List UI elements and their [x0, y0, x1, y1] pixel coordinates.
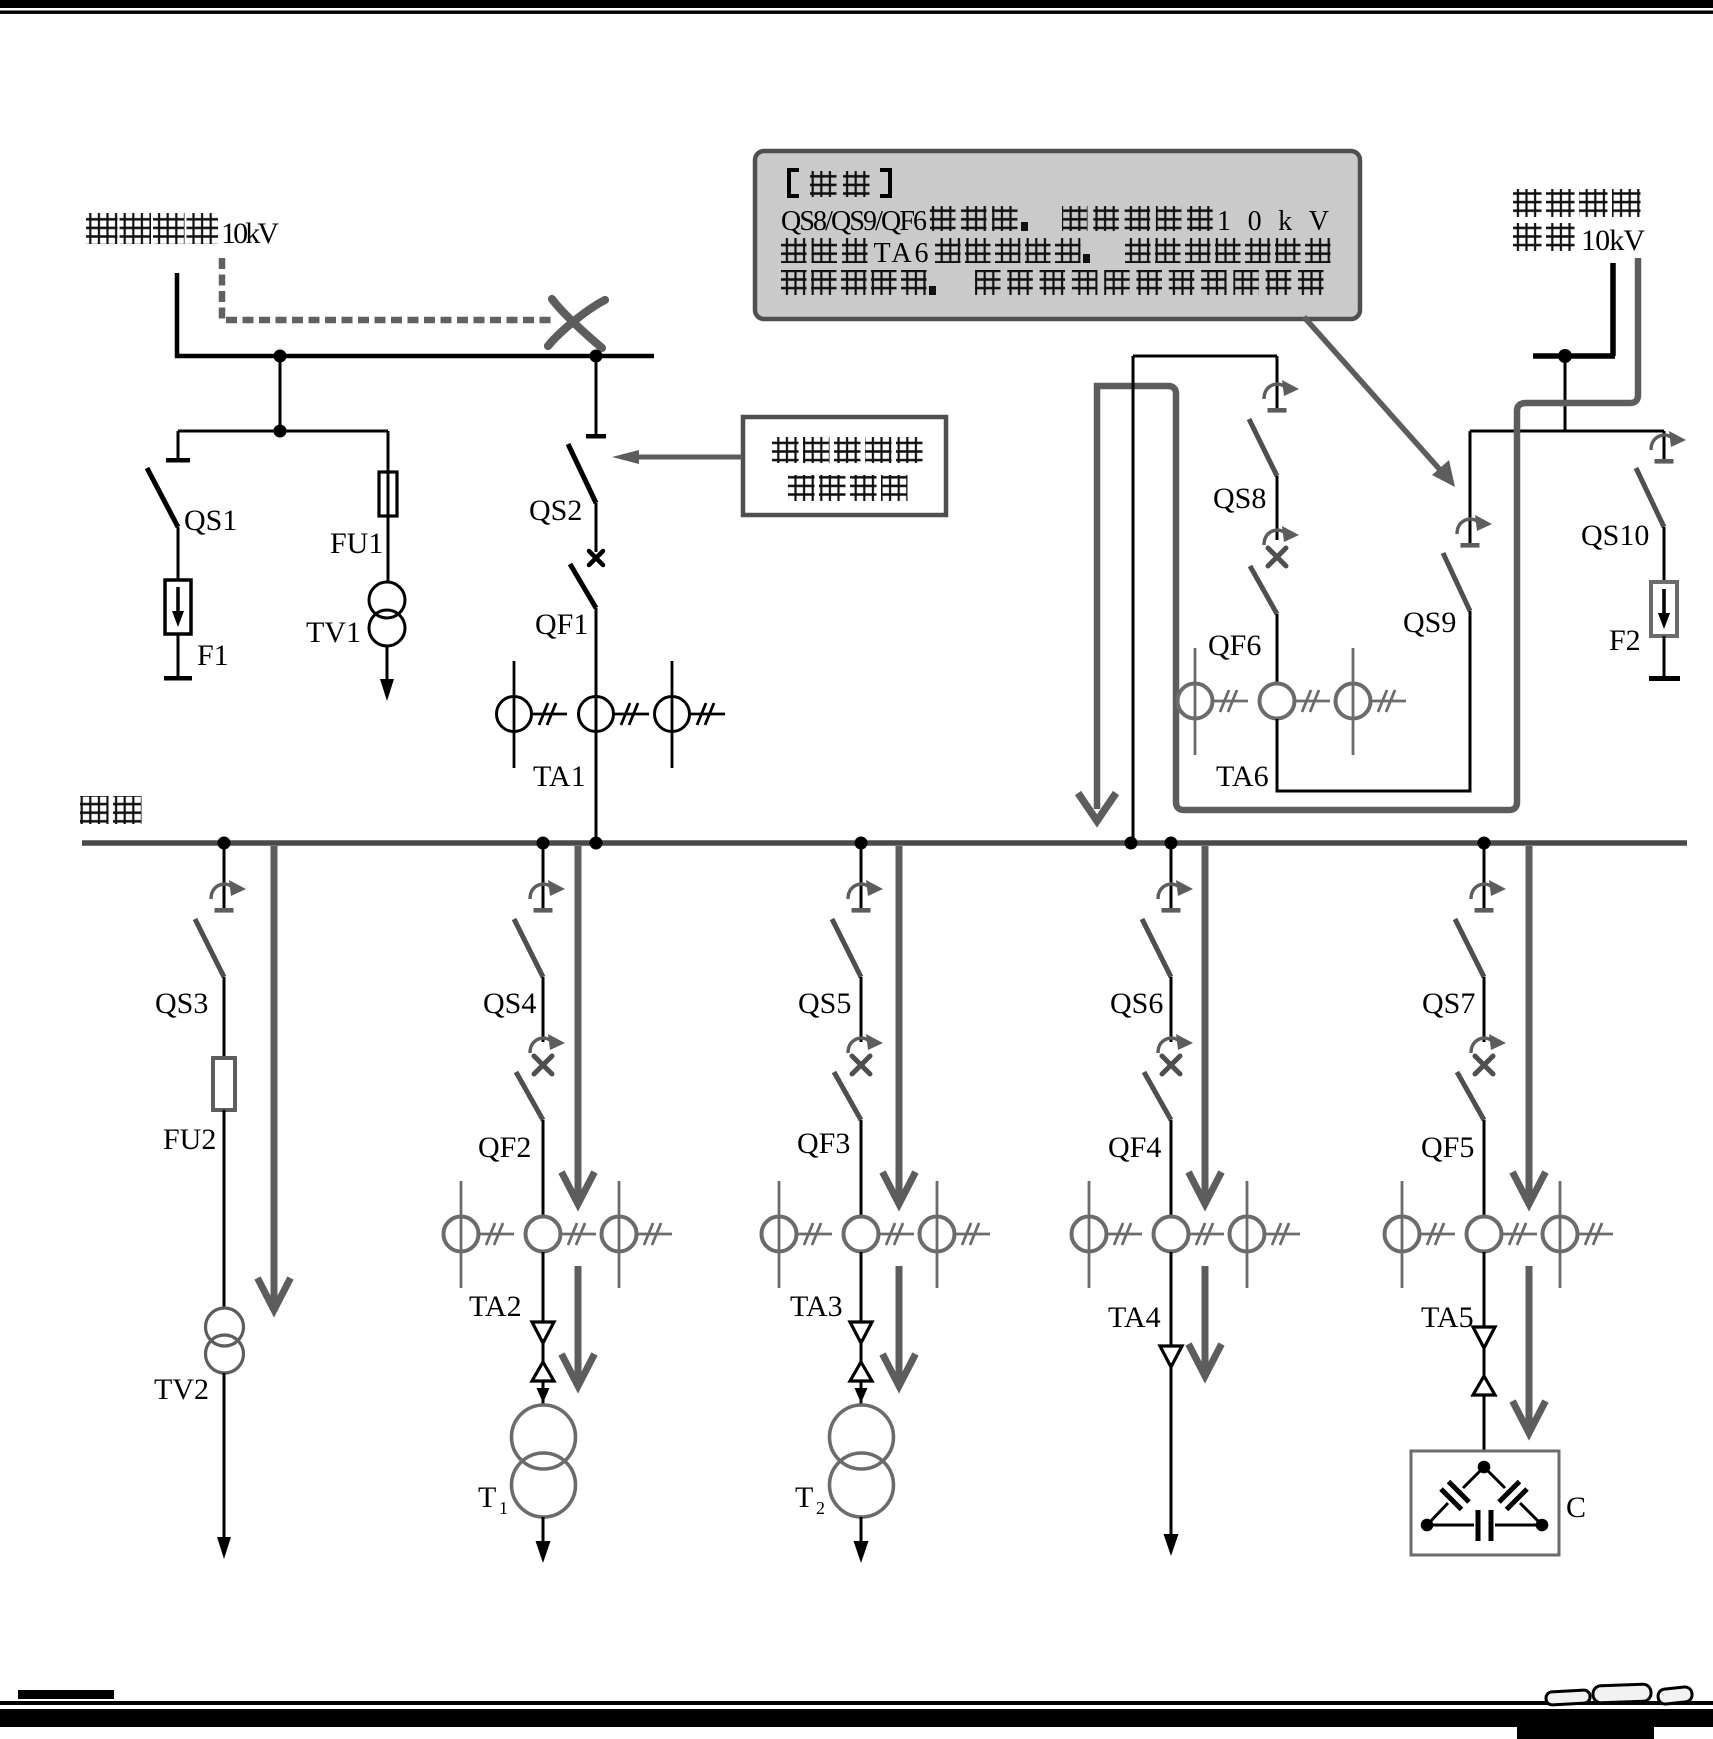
svg-text:2: 2 [816, 1498, 825, 1518]
wire [1170, 843, 1173, 909]
wire [595, 608, 598, 843]
svg-text:FU2: FU2 [163, 1123, 216, 1156]
wire [542, 843, 545, 909]
bottom-right small doodle [1546, 1684, 1693, 1705]
svg-text:QF5: QF5 [1421, 1131, 1474, 1164]
capacitor bank delta [1478, 1461, 1491, 1474]
svg-text:QS9: QS9 [1403, 606, 1456, 639]
svg-text:10kV: 10kV [221, 217, 279, 250]
flow arrows branch4 [1202, 846, 1209, 1198]
svg-text:QS3: QS3 [155, 987, 208, 1020]
disconnector QS5 [848, 884, 868, 899]
breaker QF5 [1471, 1038, 1491, 1053]
capacitor bank C box [1411, 1451, 1559, 1555]
current transformer TA3 [778, 1181, 781, 1288]
wire: left riser [175, 273, 180, 358]
svg-text:TA6: TA6 [874, 238, 929, 269]
svg-text:QS6: QS6 [1110, 987, 1163, 1020]
disconnector QS6 [1158, 884, 1178, 899]
svg-text:TA6: TA6 [1216, 760, 1269, 793]
svg-text:F1: F1 [197, 639, 229, 672]
callout box: fault note [743, 417, 946, 515]
wire + arrow [860, 1517, 863, 1546]
svg-text:TA2: TA2 [469, 1290, 522, 1323]
svg-text:QF6: QF6 [1208, 629, 1261, 662]
wire [1483, 977, 1486, 1042]
current transformer TA1 [513, 661, 516, 768]
disconnector QS4 [530, 884, 550, 899]
node: feeder junction B (QS2 tap) [590, 350, 603, 363]
disconnector QS2 [595, 356, 598, 435]
wire: QS8 header drop to bus [1132, 356, 1135, 843]
wire [1483, 1120, 1486, 1217]
note box (shuoming) [755, 151, 1360, 319]
node: bus tap x=1484 [1478, 837, 1491, 850]
disconnector QS7 [1471, 884, 1491, 899]
wire + arrow [386, 646, 389, 681]
label: busbar [80, 796, 109, 824]
flow arrowhead onto busbar [1078, 793, 1116, 821]
wire [177, 634, 180, 677]
isolating contacts [542, 1252, 545, 1322]
wire: QS1/FU1 header [178, 430, 388, 433]
wire [1663, 636, 1666, 677]
fuse FU1 [387, 431, 390, 472]
wire [860, 843, 863, 909]
wire [860, 977, 863, 1042]
disconnector QS8 [1276, 356, 1279, 409]
current transformer TA5 [1401, 1181, 1404, 1288]
svg-text:QF1: QF1 [535, 608, 588, 641]
wire [223, 977, 226, 1042]
disconnector QS10 [1663, 431, 1666, 460]
flow arrow branch1 [271, 846, 278, 1304]
wire: TA6 bottom U-link [1277, 611, 1470, 791]
svg-text:TA5: TA5 [1421, 1301, 1474, 1334]
node: backup tap [1558, 349, 1572, 363]
node: bus tap x=861 [855, 837, 868, 850]
disconnector QS9 [1469, 431, 1472, 544]
thick gray power-flow loop [1097, 258, 1638, 810]
wire: backup inlet (black thick) [1610, 263, 1616, 356]
surge arrester F1 [165, 580, 191, 634]
svg-text:QS8: QS8 [1213, 482, 1266, 515]
flow arrows branch5 [1526, 846, 1533, 1198]
earth bar F2 [1649, 676, 1680, 681]
node: bus tap x=543 [537, 837, 550, 850]
bottom border bars [18, 1690, 114, 1699]
wire [177, 527, 180, 580]
wire + arrow [1170, 1367, 1173, 1538]
flow arrows branch3 [896, 846, 903, 1198]
label: backup source inlet 10kV [1513, 189, 1542, 217]
breaker QF1 [589, 551, 603, 565]
node: bus tap x=1131 [1125, 837, 1138, 850]
wire: QS8 header [1133, 355, 1277, 358]
dashed fault wire [222, 258, 556, 320]
wire + arrow [223, 1373, 226, 1545]
svg-text:TV1: TV1 [306, 616, 361, 649]
svg-text:TA4: TA4 [1108, 1301, 1161, 1334]
svg-text:QS4: QS4 [483, 987, 536, 1020]
wire [542, 1120, 545, 1217]
svg-text:QS1: QS1 [184, 504, 237, 537]
svg-text:QF3: QF3 [797, 1127, 850, 1160]
svg-text:F2: F2 [1609, 624, 1641, 657]
svg-text:QF2: QF2 [478, 1131, 531, 1164]
breaker QF3 [848, 1038, 868, 1053]
node: feeder junction A [274, 350, 287, 363]
wire [387, 516, 390, 582]
svg-text:TA3: TA3 [790, 1290, 843, 1323]
node: header junction [274, 425, 287, 438]
wire + arrow [542, 1517, 545, 1546]
svg-text:T: T [795, 1481, 813, 1514]
svg-text:TV2: TV2 [154, 1373, 209, 1406]
voltage transformer TV1 [369, 582, 405, 618]
earth bar F1 [164, 676, 192, 681]
svg-text:QS10: QS10 [1581, 519, 1649, 552]
flow arrows branch2 [575, 846, 582, 1198]
fuse FU2 [223, 1042, 226, 1058]
isolating contacts [1483, 1252, 1486, 1327]
svg-text:QS8/QS9/QF6: QS8/QS9/QF6 [781, 206, 927, 237]
wire [860, 1120, 863, 1217]
arrow: note box to QS9 [1304, 317, 1442, 472]
svg-text:QS5: QS5 [798, 987, 851, 1020]
arrow: fault note to QS2 [634, 455, 742, 460]
current transformer TA4 [1088, 1181, 1091, 1288]
X cut mark [548, 300, 605, 346]
svg-text:QF4: QF4 [1108, 1131, 1161, 1164]
svg-text:T: T [478, 1481, 496, 1514]
wire: drop to QS1/FU1 junction [279, 356, 282, 431]
svg-text:QS2: QS2 [529, 494, 582, 527]
svg-text:TA1: TA1 [533, 760, 586, 793]
label: main source inlet 10kV [86, 213, 118, 244]
wire [1276, 476, 1279, 540]
svg-text:1: 1 [499, 1498, 508, 1518]
wire [1663, 527, 1666, 582]
wire [1564, 356, 1567, 431]
wire [1276, 614, 1279, 684]
svg-text:C: C [1566, 1491, 1586, 1524]
wire: top feeder bus [175, 354, 654, 359]
transformer T1 [512, 1405, 576, 1469]
voltage transformer TV2 [206, 1308, 244, 1346]
busbar [82, 840, 1687, 846]
breaker QF4 [1158, 1038, 1178, 1053]
wire: QS9/QS10 header [1470, 430, 1664, 433]
isolating contact [1170, 1252, 1173, 1346]
wire [1170, 1120, 1173, 1217]
wire [223, 1110, 226, 1308]
disconnector QS1 [177, 431, 180, 458]
node: bus tap x=1171 [1165, 837, 1178, 850]
wire [542, 977, 545, 1042]
current transformer TA6 [1194, 648, 1197, 755]
wire [223, 843, 226, 909]
svg-text:QS7: QS7 [1422, 987, 1475, 1020]
wire [595, 503, 598, 552]
node: bus tap x=596 [590, 837, 603, 850]
disconnector QS3 [211, 884, 231, 899]
wire [1483, 843, 1486, 909]
svg-text:10kV: 10kV [1581, 224, 1645, 257]
transformer T2 [830, 1405, 894, 1469]
isolating contacts [860, 1252, 863, 1322]
current transformer TA2 [460, 1181, 463, 1288]
top border bar [0, 0, 1713, 8]
wire [1170, 977, 1173, 1042]
breaker QF2 [530, 1038, 550, 1053]
surge arrester F2 [1651, 582, 1677, 636]
svg-text:FU1: FU1 [330, 527, 383, 560]
breaker QF6 [1264, 530, 1284, 545]
node: bus tap x=224 [218, 837, 231, 850]
